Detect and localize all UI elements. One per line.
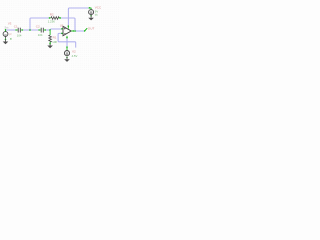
voltage source V1 (top right) [88, 7, 93, 14]
ground under R1 [47, 44, 53, 48]
wire op-amp minus input around to V2 [58, 33, 76, 47]
svg-text:1.23K: 1.23K [48, 20, 55, 24]
wire C1 to C2 [23, 29, 39, 31]
svg-text:V3: V3 [8, 22, 12, 26]
wire R2 right to output node [61, 18, 75, 31]
resistor R2 (horizontal) [49, 17, 61, 20]
wire output to OUT flag [75, 30, 84, 32]
wire V+ rail to V1 [68, 8, 88, 26]
svg-text:R1: R1 [53, 36, 57, 40]
ground under V1 [88, 15, 94, 20]
wire op-amp V- pin to V2 top [66, 38, 68, 47]
svg-text:4.5V: 4.5V [72, 54, 78, 58]
svg-text:OUT: OUT [88, 26, 95, 30]
node B junction [49, 29, 51, 31]
microphone source MK1 [3, 29, 8, 39]
svg-text:V2: V2 [72, 50, 76, 54]
mic ground net label (green) [10, 38, 12, 39]
resistor R1 (vertical) [49, 31, 52, 45]
output node junction [74, 30, 76, 32]
svg-text:C1: C1 [14, 25, 18, 29]
wire node A up to R2 left [30, 18, 49, 30]
svg-text:10K: 10K [52, 40, 57, 44]
capacitor C2 [38, 28, 46, 33]
svg-text:U1: U1 [60, 23, 64, 27]
svg-text:104: 104 [17, 33, 22, 37]
wire C2 to node B [46, 29, 50, 31]
ground under mic [3, 39, 9, 45]
ground under V2 [64, 57, 70, 62]
wire mic to C1 [6, 29, 16, 31]
OUT flag [84, 28, 87, 32]
svg-text:C2: C2 [36, 25, 40, 29]
voltage source V2 (bottom middle) [64, 46, 69, 55]
wire node B to op-amp plus input [50, 28, 62, 31]
op-amp U1 [61, 25, 74, 38]
node A junction [29, 29, 31, 31]
svg-text:104: 104 [38, 33, 43, 37]
capacitor C1 [15, 28, 23, 33]
svg-text:R2: R2 [50, 13, 54, 17]
